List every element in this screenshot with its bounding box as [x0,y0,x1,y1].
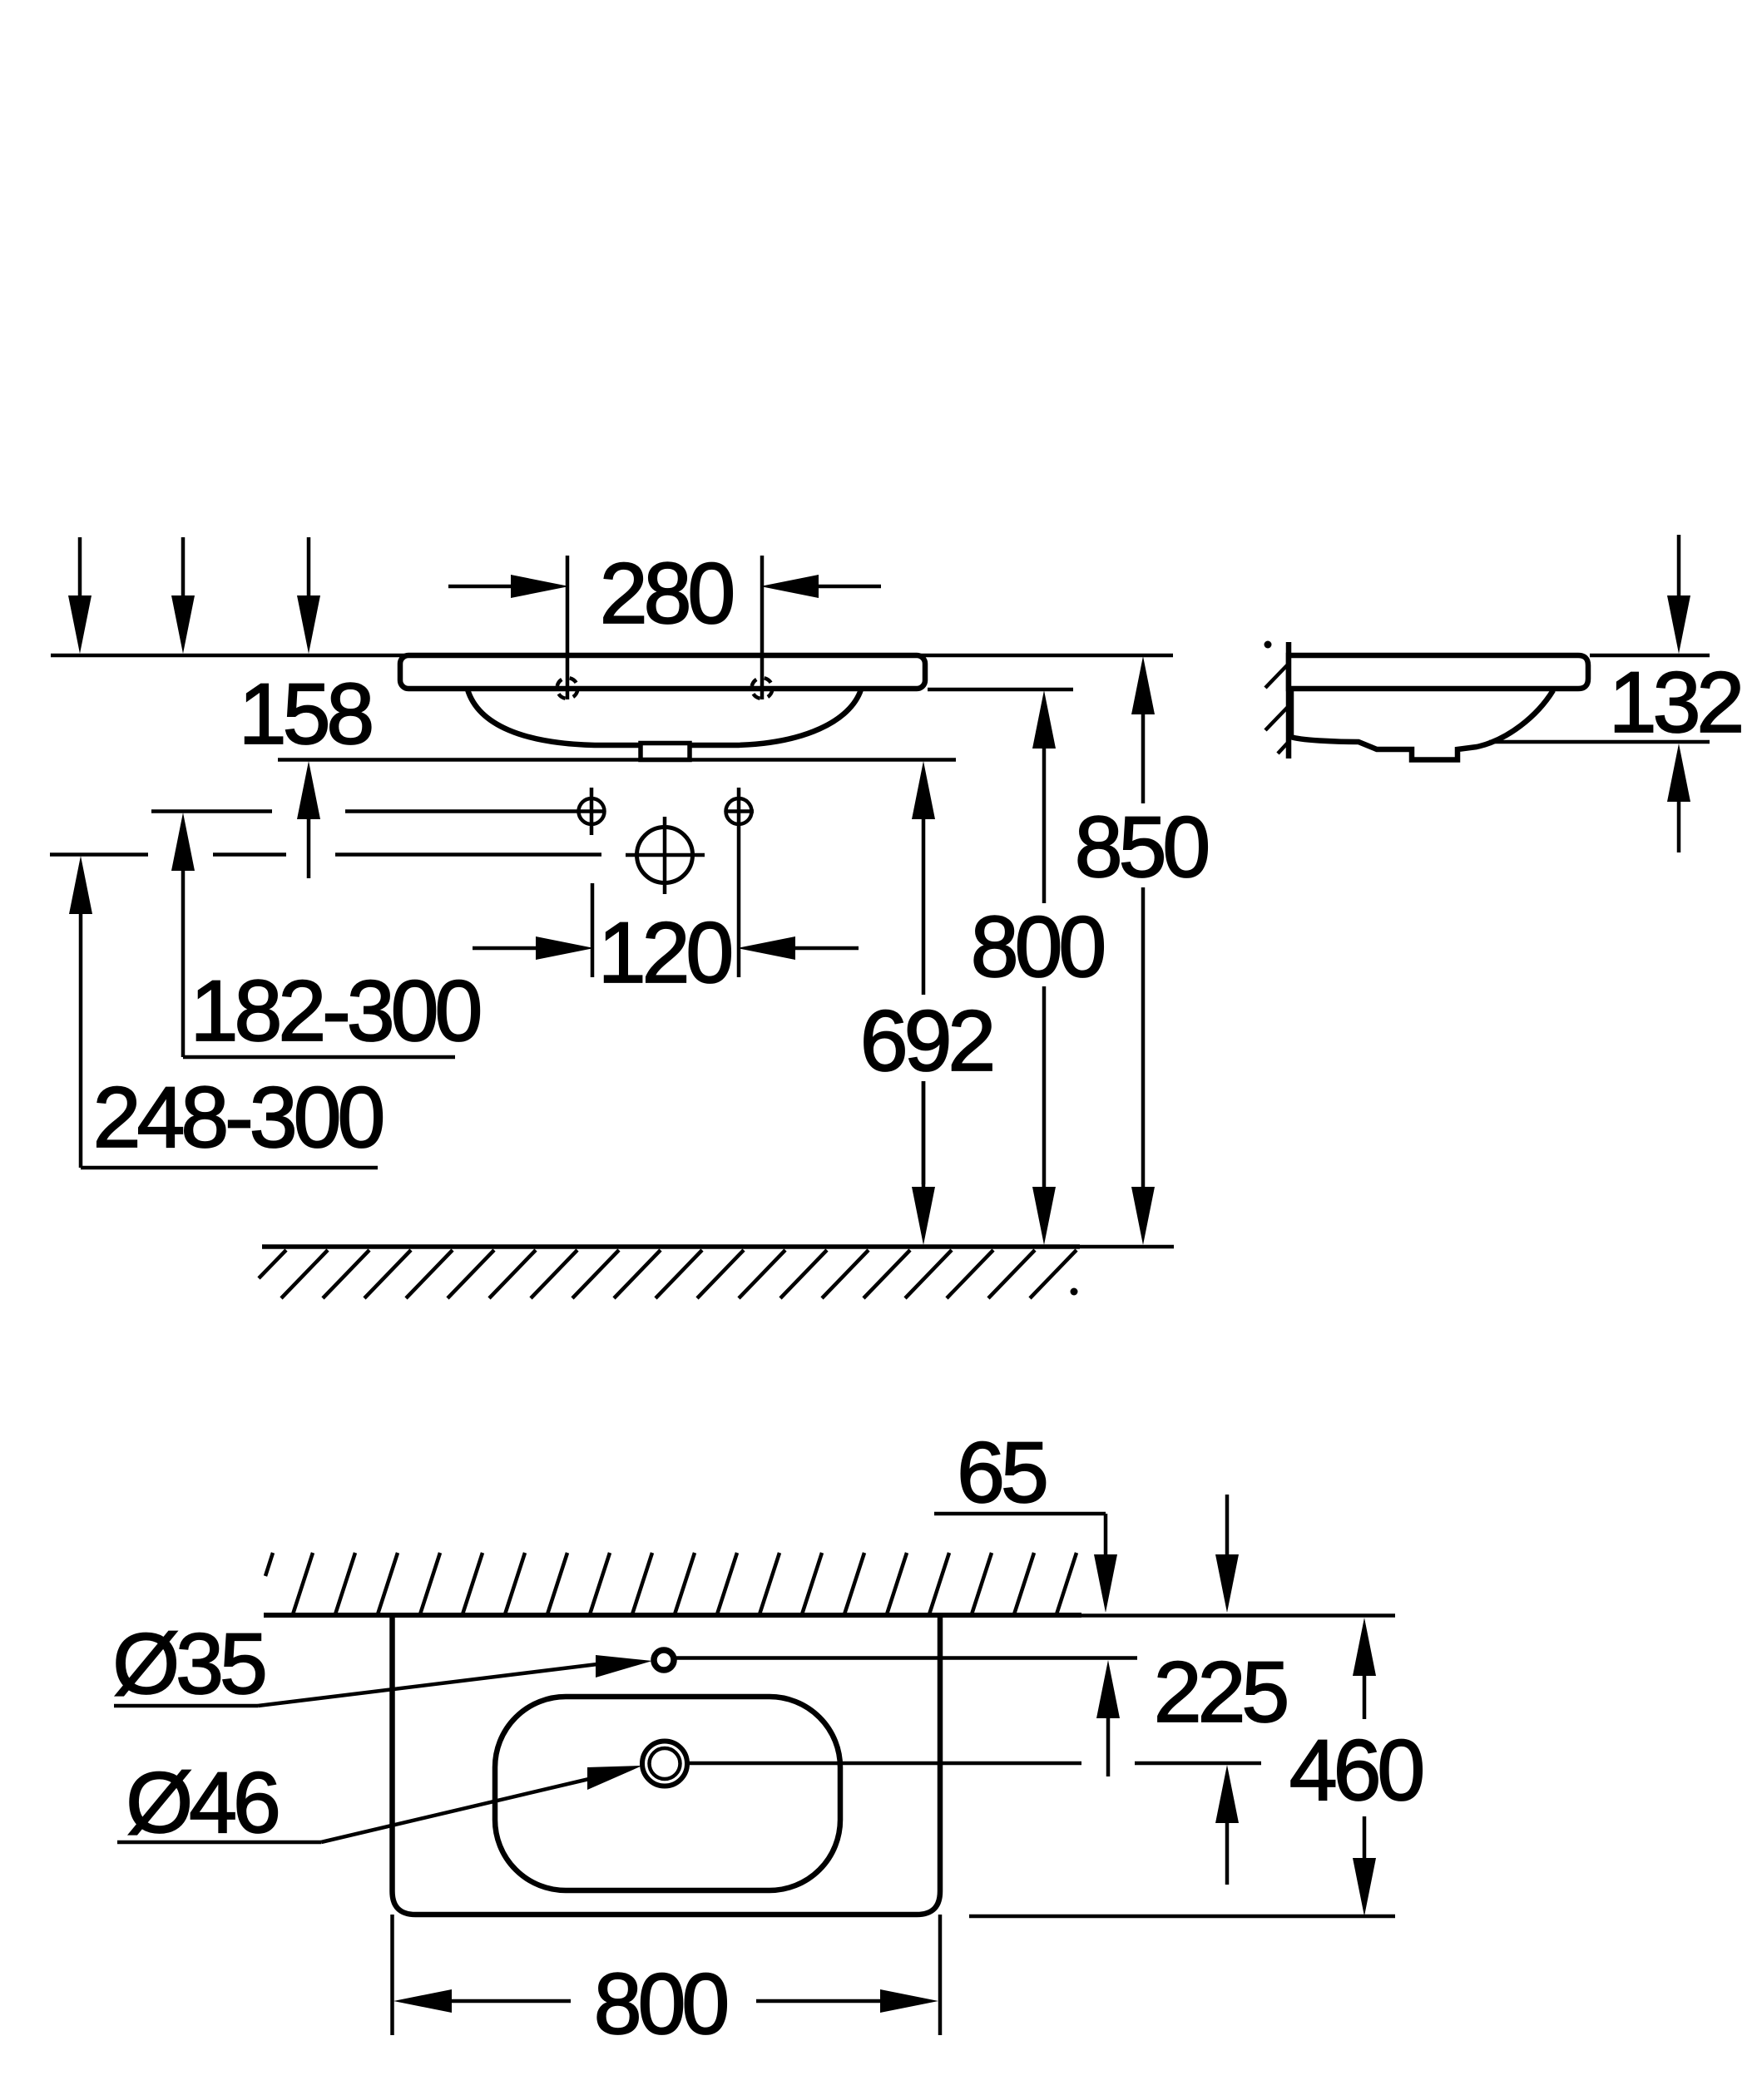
top view: drain inner circle [650,1748,681,1779]
label Ø46 leader [117,1766,642,1842]
front view: right mounting hole symbol [725,788,754,977]
svg-text:Ø35: Ø35 [112,1616,265,1712]
dimension 800 left arrow [393,1989,571,2013]
dimension 800 bottom label [594,1956,727,2053]
dimension 182-300 arrow and leader [171,813,455,1057]
label Ø35 text [112,1616,265,1712]
front view: right faucet hole dashed circle [752,678,773,699]
dimension 132 top arrow [1667,535,1690,654]
dimension 280 left extension line [566,556,570,699]
dimension 225 bottom arrow [1215,1765,1239,1885]
front view: basin bottom reference line [278,758,956,762]
dimension 120 right arrow [737,936,859,960]
dimension 280 label [600,546,733,642]
front view: wall reference line (basin top level) [51,654,1173,658]
dimension 65 leader and arrow [934,1514,1117,1613]
svg-text:692: 692 [860,993,992,1090]
dimension 65 second arrow [1215,1495,1239,1613]
label Ø35 leader [114,1655,652,1706]
dimension 850 line with arrows [1131,656,1155,1245]
side view: wall line [1286,642,1292,758]
side view: basin deck outline [1289,655,1588,689]
dimension 800 right arrow [756,1989,938,2013]
front view: mounting reference down arrow 2 [171,537,195,654]
svg-text:225: 225 [1154,1644,1287,1741]
dimension 800 right extension line [938,1915,943,2035]
svg-text:280: 280 [600,546,733,642]
side view: basin bowl profile [1291,689,1553,760]
svg-text:248-300: 248-300 [93,1070,383,1166]
side view: wall hatching [1265,665,1288,754]
top view: drain reference line [689,1762,1261,1766]
front view: left faucet hole dashed circle [557,678,578,699]
svg-text:800: 800 [594,1956,727,2053]
top view: wall line [264,1613,1395,1618]
front view: basin bowl profile [468,689,861,745]
dimension 225 top arrow [1096,1660,1120,1776]
top view: wall hatching [265,1553,1076,1614]
dimension 800 front label [971,899,1104,996]
svg-text:460: 460 [1289,1722,1423,1819]
dimension 280 right arrow [760,575,881,598]
dimension 460 label [1289,1722,1423,1819]
dimension 120 left arrow [473,936,594,960]
dimension 132 bottom extension line [1489,740,1710,744]
dimension 692 label [860,993,992,1090]
top view: drain outer circle [642,1742,687,1786]
front view: mounting reference down arrow 3 [297,537,320,654]
front view: drain hole symbol [626,817,705,894]
dimension 225 label [1154,1644,1287,1741]
label Ø46 text [126,1755,278,1851]
dimension 132 label [1609,655,1741,751]
dimension 280 right extension line [760,556,765,699]
front view: floor hatch end dot [1071,1288,1078,1296]
dimension 158 up arrow [297,761,320,878]
dimension 132 bottom arrow [1667,744,1690,852]
front view: hole line A (182-300 reference) [151,809,578,813]
top view: basin outline [393,1615,941,1915]
dimension 850 label [1075,799,1208,896]
svg-text:182-300: 182-300 [191,963,480,1060]
dimension 182-300 label [191,963,480,1060]
dimension 132 top extension line [1590,654,1710,658]
svg-text:120: 120 [598,905,731,1001]
dimension 120 label [598,905,731,1001]
dimension 158 label [239,666,372,763]
front view: drain stub [641,744,690,760]
dimension 800 line with arrows [1032,690,1056,1245]
dimension 280 left arrow [448,575,569,598]
dimension 248-300 arrow and leader [69,856,378,1168]
front view: basin deck outline [400,655,925,689]
dimension 460 bottom arrow [1353,1816,1376,1916]
top view: inner bowl outline [495,1697,840,1890]
dimension 692 line with arrows [912,761,935,1245]
dimension 120 left extension line [591,883,595,977]
dimension 248-300 label [93,1070,383,1166]
svg-text:800: 800 [971,899,1104,996]
svg-text:158: 158 [239,666,372,763]
front view: mounting reference down arrow 1 [68,537,92,654]
front view: left mounting hole symbol [577,788,606,835]
front view: floor hatching [259,1250,1076,1298]
svg-text:132: 132 [1609,655,1741,751]
svg-text:65: 65 [957,1425,1046,1521]
front view: hole line B (248-300 reference) [50,852,601,857]
dimension 800 extension line (basin underside) [928,688,1073,692]
dimension 65 label [957,1425,1046,1521]
side view: wall dot [1265,641,1272,649]
dimension 800 left extension line [390,1915,394,2035]
svg-text:Ø46: Ø46 [126,1755,278,1851]
top view: faucet hole reference line [676,1656,1137,1660]
dimension 460 bottom extension line [969,1915,1395,1919]
front view: floor line [262,1244,1174,1249]
top view: faucet hole circle [654,1650,674,1670]
svg-text:850: 850 [1075,799,1208,896]
dimension 460 top arrow [1353,1618,1376,1719]
